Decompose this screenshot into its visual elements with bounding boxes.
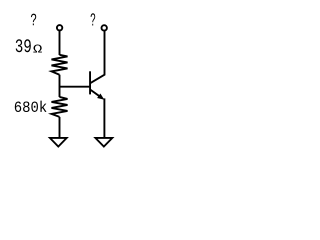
label 39 (R1 value digits)	[16, 39, 31, 52]
wire: emitter to right ground	[103, 98, 105, 137]
label ? (left terminal)	[31, 14, 36, 26]
transistor Q1 base bar	[89, 71, 91, 94]
resistor R2 680k	[52, 97, 68, 117]
ground (right)	[93, 137, 114, 148]
ground (left)	[48, 137, 69, 148]
wire: R1 bottom through node to R2 top	[59, 75, 61, 97]
transistor Q1 collector diagonal	[91, 31, 105, 83]
wire: base node to transistor base	[60, 86, 90, 88]
label Ω (R1 value unit)	[33, 45, 42, 53]
emitter arrowhead	[97, 94, 104, 100]
wire: left terminal to R1 top	[59, 31, 61, 55]
label ? (right terminal)	[91, 13, 96, 25]
label 680k (R2 value)	[15, 101, 47, 112]
resistor R1 39Ω	[52, 55, 68, 75]
terminal T2 (right, "?")	[102, 25, 107, 30]
transistor Q1 emitter diagonal	[91, 90, 101, 97]
terminal T1 (left, "?")	[57, 25, 62, 30]
wire: R2 bottom to left ground	[59, 117, 61, 137]
